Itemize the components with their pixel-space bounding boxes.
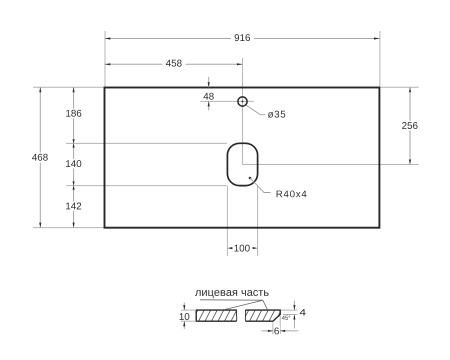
dimension 468: [29, 87, 52, 227]
dimension 458: [105, 59, 243, 70]
txt:лицевая часть: [200, 300, 263, 310]
extension line right x=380.5 vertical above rect: [379, 31, 381, 87]
horizontal centerline cutout centre to right dim: [242, 164, 418, 166]
extension line y=143.3 (cutout top, to left dims): [66, 142, 227, 144]
horizontal centerline through hole: [200, 100, 254, 102]
cutout vertical extension lines to 100-dim: [226, 186, 228, 256]
extension line left of x=105 (top-left vertical): [104, 31, 106, 87]
extension line y=87.3 right side: [380, 86, 418, 88]
vertical centerline of hole/cutout: [241, 58, 243, 165]
label лицевая часть with leaders: [195, 290, 269, 310]
txt:140: [62, 201, 85, 211]
dimension 4 with 45° chamfer note: [281, 301, 306, 329]
label R40x4 with leader: [249, 177, 307, 198]
dimension 10: [180, 303, 197, 329]
hole centre mark: [242, 101, 244, 103]
extension line y=87.3 left side: [33, 86, 104, 88]
sink cutout R40x4: [227, 143, 257, 185]
faucet hole ø35: [238, 97, 247, 106]
countertop outline: [105, 88, 380, 228]
dimension 916: [105, 33, 380, 44]
label ø35 with leader: [246, 105, 285, 117]
extension line y=185.6 (cutout bottom, to left dims): [66, 185, 227, 187]
right bar outline with 45° chamfer: [245, 310, 280, 321]
dimension 48: [203, 77, 213, 111]
txt:186: [62, 159, 85, 169]
dimension 100: [227, 245, 257, 252]
dimension 256: [399, 87, 422, 164]
txt:4: [282, 316, 290, 320]
left bar outline (break line right end): [196, 310, 237, 321]
dimension 6: [262, 316, 299, 336]
extension line y=227.6 left side: [33, 227, 104, 229]
right bar hatching: [243, 310, 281, 321]
left bar hatching: [192, 310, 237, 321]
chained dimensions 186 / 140 / 142: [62, 87, 85, 227]
